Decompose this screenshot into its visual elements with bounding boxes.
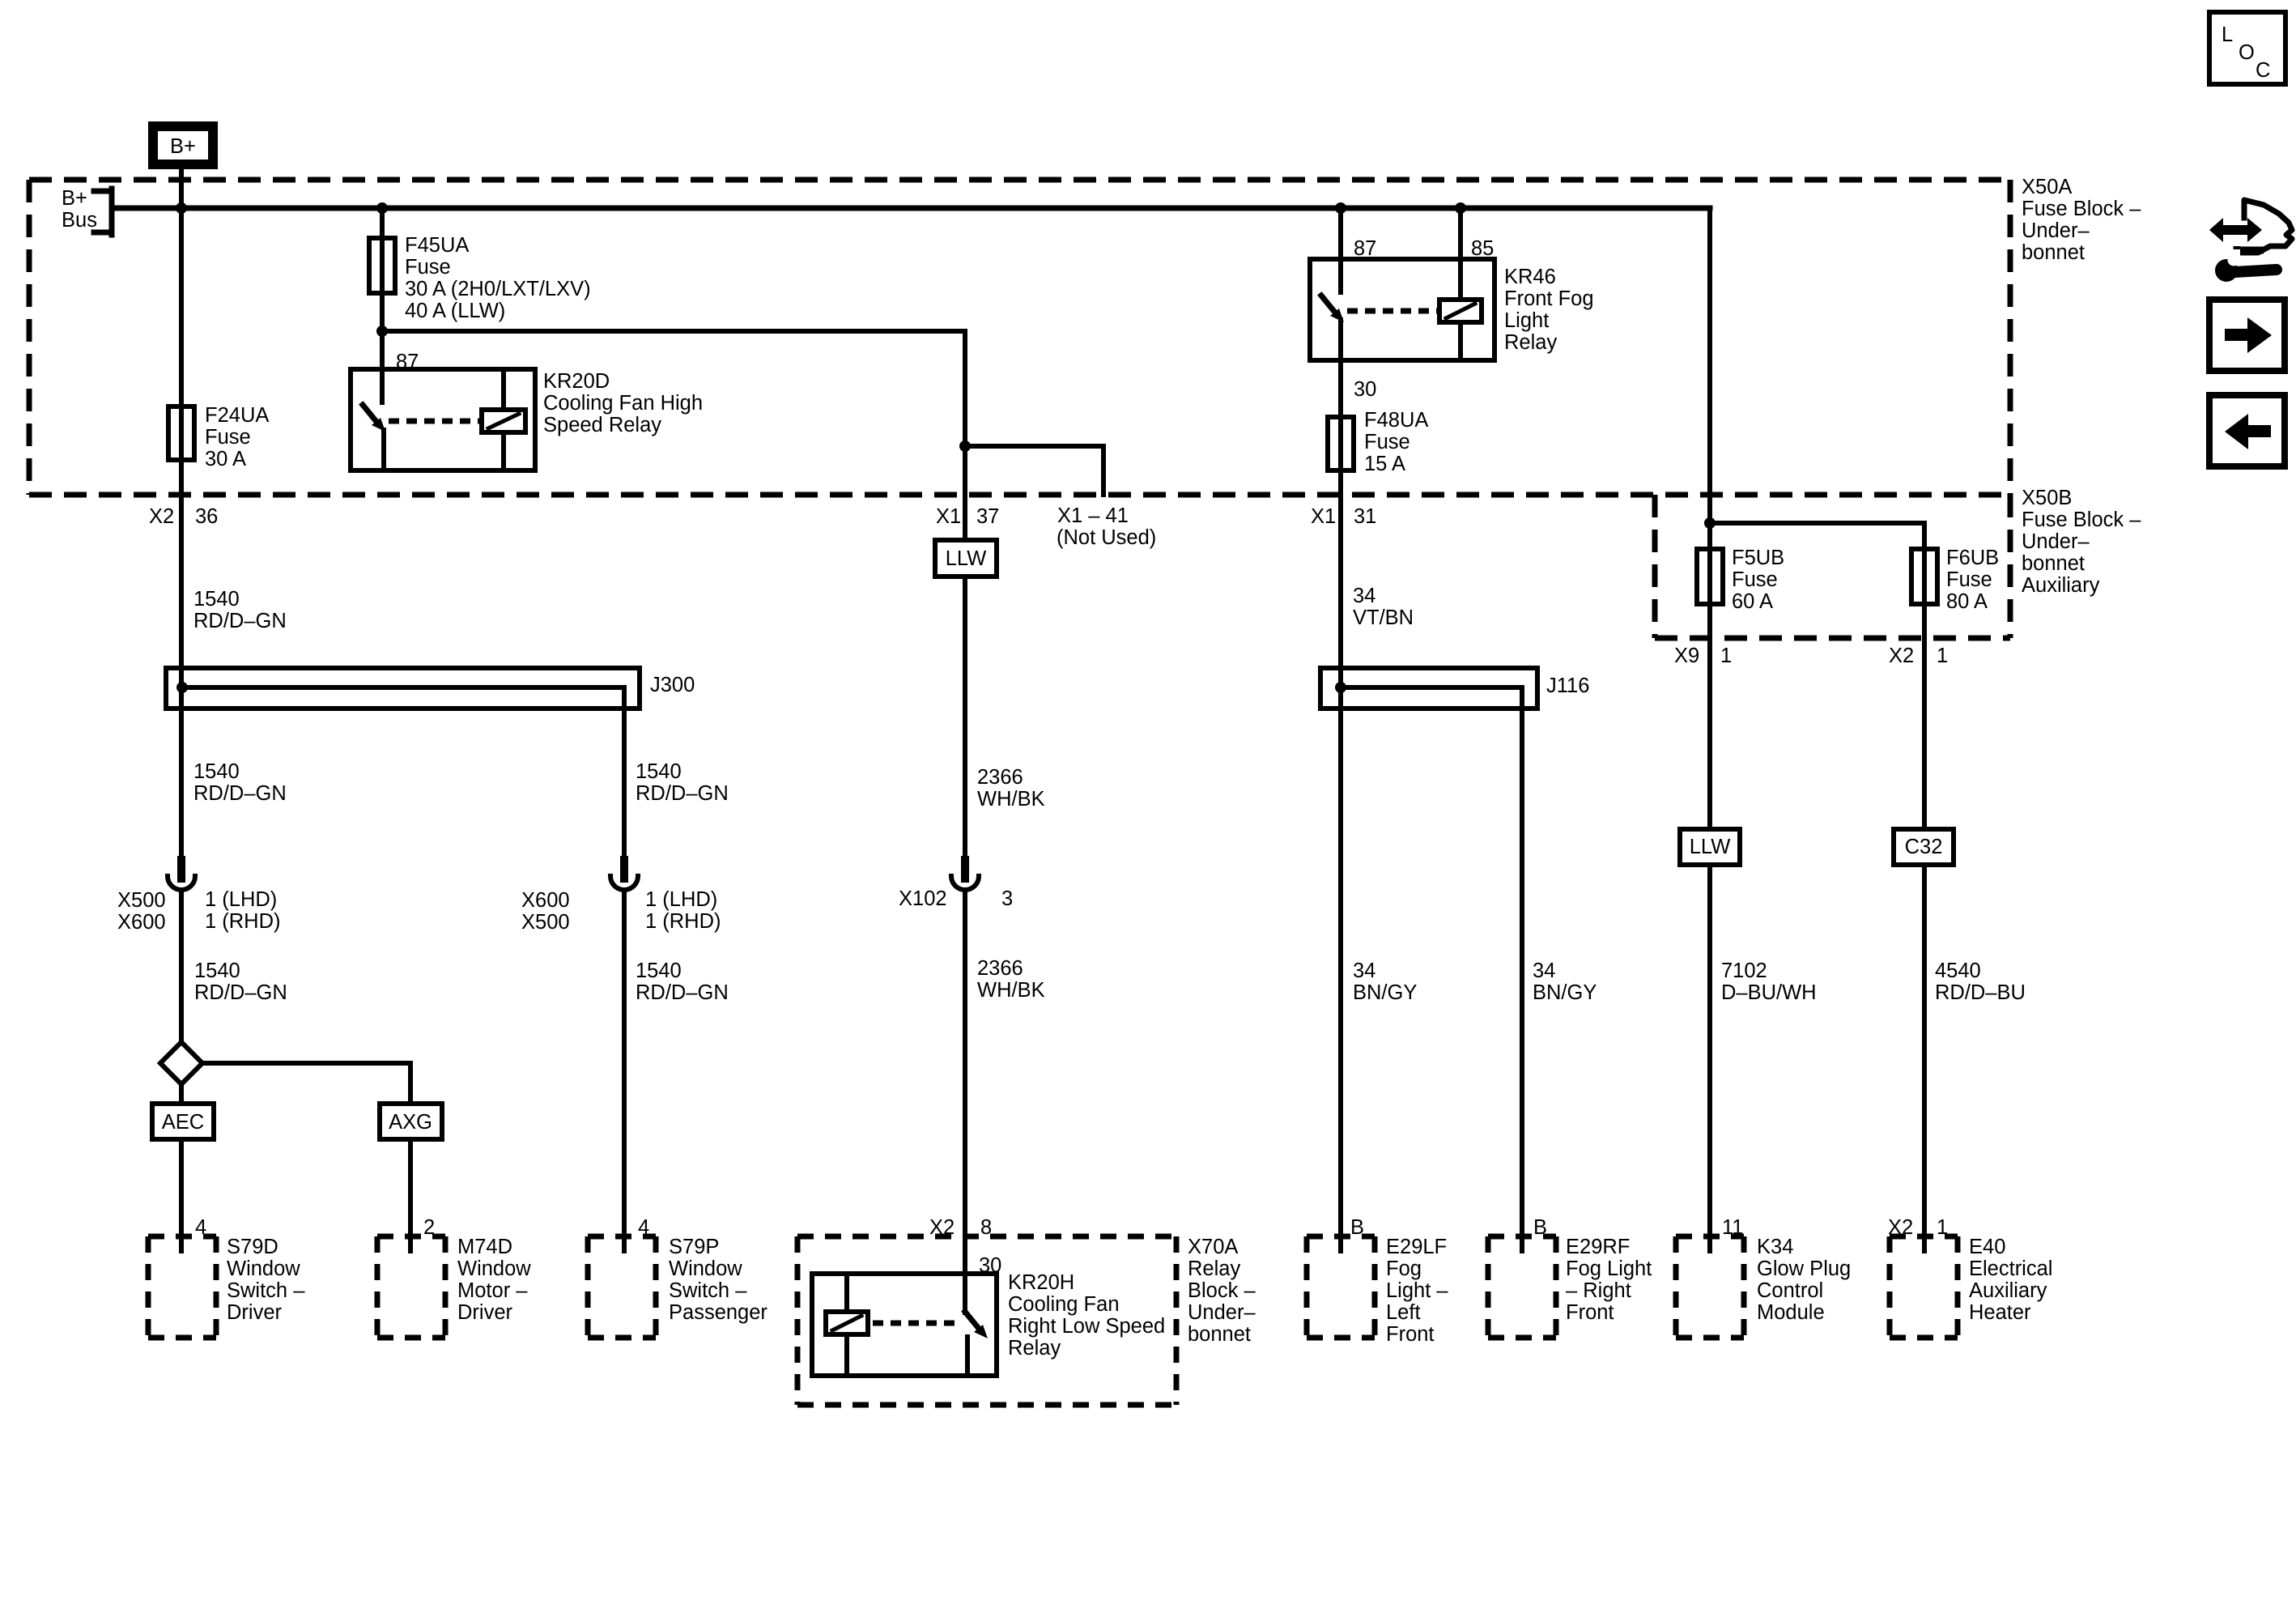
svg-text:bonnet: bonnet	[1188, 1323, 1251, 1346]
svg-text:J116: J116	[1546, 674, 1589, 697]
svg-text:X50A: X50A	[2022, 176, 2072, 198]
svg-text:Passenger: Passenger	[669, 1301, 767, 1324]
svg-text:X2: X2	[929, 1216, 955, 1239]
svg-text:Switch –: Switch –	[227, 1279, 305, 1302]
svg-text:AXG: AXG	[389, 1111, 432, 1134]
svg-text:2: 2	[423, 1216, 435, 1239]
svg-text:Window: Window	[669, 1257, 742, 1280]
svg-text:37: 37	[976, 505, 999, 528]
svg-text:30: 30	[979, 1254, 1001, 1277]
svg-text:F24UA: F24UA	[205, 404, 269, 427]
svg-text:1: 1	[1720, 645, 1732, 667]
svg-text:F48UA: F48UA	[1364, 409, 1428, 432]
svg-text:Speed Relay: Speed Relay	[543, 414, 661, 436]
svg-text:31: 31	[1354, 505, 1376, 528]
svg-text:1540: 1540	[193, 588, 240, 611]
svg-text:Fuse: Fuse	[1364, 431, 1410, 453]
svg-text:B+: B+	[170, 135, 196, 158]
svg-text:11: 11	[1722, 1216, 1743, 1239]
svg-text:X2: X2	[1889, 645, 1914, 667]
svg-text:X1: X1	[936, 505, 961, 528]
svg-text:15 A: 15 A	[1364, 453, 1405, 475]
svg-text:Left: Left	[1386, 1301, 1421, 1324]
svg-text:Under–: Under–	[2022, 219, 2090, 242]
svg-text:2366: 2366	[977, 766, 1023, 789]
svg-text:RD/D–BU: RD/D–BU	[1935, 981, 2026, 1004]
svg-text:60 A: 60 A	[1732, 590, 1773, 613]
svg-text:Fuse: Fuse	[205, 426, 251, 449]
svg-text:Under–: Under–	[1188, 1301, 1256, 1324]
svg-text:Fuse: Fuse	[1946, 568, 1992, 591]
svg-text:Relay: Relay	[1504, 331, 1557, 354]
svg-text:C32: C32	[1905, 836, 1943, 858]
svg-text:X1 – 41: X1 – 41	[1057, 504, 1129, 527]
svg-text:1540: 1540	[193, 760, 240, 783]
svg-text:1 (LHD): 1 (LHD)	[205, 888, 277, 911]
svg-text:Auxiliary: Auxiliary	[1969, 1279, 2047, 1302]
svg-text:Relay: Relay	[1188, 1257, 1240, 1280]
svg-text:Window: Window	[227, 1257, 300, 1280]
svg-text:X600: X600	[521, 889, 570, 912]
svg-text:X70A: X70A	[1188, 1236, 1238, 1258]
svg-text:M74D: M74D	[457, 1236, 512, 1258]
svg-text:Block –: Block –	[1188, 1279, 1256, 1302]
svg-text:Window: Window	[457, 1257, 531, 1280]
svg-text:X500: X500	[521, 911, 570, 934]
svg-text:Electrical: Electrical	[1969, 1257, 2052, 1280]
svg-text:(Not Used): (Not Used)	[1057, 526, 1156, 549]
svg-text:Relay: Relay	[1008, 1337, 1061, 1360]
svg-text:1540: 1540	[636, 760, 682, 783]
svg-text:34: 34	[1353, 960, 1375, 982]
svg-text:J300: J300	[650, 674, 695, 696]
svg-text:B: B	[1533, 1216, 1547, 1239]
svg-text:Driver: Driver	[227, 1301, 283, 1324]
svg-text:4540: 4540	[1935, 960, 1981, 982]
svg-text:B+: B+	[62, 187, 87, 210]
svg-text:7102: 7102	[1721, 960, 1767, 982]
svg-text:RD/D–GN: RD/D–GN	[193, 610, 287, 632]
svg-text:X2: X2	[1888, 1216, 1913, 1239]
svg-text:36: 36	[195, 505, 218, 528]
svg-text:Switch –: Switch –	[669, 1279, 747, 1302]
svg-text:Front: Front	[1386, 1323, 1435, 1346]
svg-text:Right Low Speed: Right Low Speed	[1008, 1315, 1165, 1338]
svg-text:4: 4	[638, 1216, 649, 1239]
svg-text:Light: Light	[1504, 309, 1549, 332]
svg-text:VT/BN: VT/BN	[1353, 606, 1414, 629]
svg-text:Under–: Under–	[2022, 530, 2090, 553]
svg-text:– Right: – Right	[1566, 1279, 1631, 1302]
svg-text:S79P: S79P	[669, 1236, 719, 1258]
svg-text:KR20D: KR20D	[543, 370, 610, 393]
svg-text:Front Fog: Front Fog	[1504, 287, 1594, 310]
svg-text:40 A (LLW): 40 A (LLW)	[405, 300, 505, 322]
svg-text:O: O	[2239, 41, 2255, 64]
svg-text:2366: 2366	[977, 957, 1023, 980]
svg-text:Cooling Fan High: Cooling Fan High	[543, 392, 703, 415]
svg-text:Bus: Bus	[62, 209, 97, 232]
svg-text:RD/D–GN: RD/D–GN	[194, 981, 287, 1004]
svg-text:Cooling Fan: Cooling Fan	[1008, 1293, 1120, 1316]
svg-text:LLW: LLW	[1690, 836, 1731, 858]
svg-text:Auxiliary: Auxiliary	[2022, 574, 2100, 597]
svg-text:Driver: Driver	[457, 1301, 513, 1324]
svg-text:X9: X9	[1674, 645, 1699, 667]
svg-text:1540: 1540	[194, 960, 240, 982]
svg-text:Module: Module	[1757, 1301, 1825, 1324]
svg-text:E40: E40	[1969, 1236, 2005, 1258]
svg-text:3: 3	[1001, 887, 1013, 910]
svg-text:X2: X2	[149, 505, 174, 528]
svg-text:KR20H: KR20H	[1008, 1271, 1074, 1294]
svg-text:1 (LHD): 1 (LHD)	[645, 888, 717, 911]
svg-text:E29RF: E29RF	[1566, 1236, 1630, 1258]
svg-text:30 A (2H0/LXT/LXV): 30 A (2H0/LXT/LXV)	[405, 278, 591, 300]
svg-text:BN/GY: BN/GY	[1353, 981, 1417, 1004]
svg-text:1 (RHD): 1 (RHD)	[645, 910, 721, 933]
svg-text:34: 34	[1533, 960, 1555, 982]
svg-text:LLW: LLW	[946, 547, 987, 570]
svg-text:8: 8	[980, 1216, 992, 1239]
svg-text:X600: X600	[117, 911, 166, 934]
svg-text:Fuse Block –: Fuse Block –	[2022, 198, 2141, 220]
svg-text:1540: 1540	[636, 960, 682, 982]
svg-text:Heater: Heater	[1969, 1301, 2031, 1324]
svg-text:Glow Plug: Glow Plug	[1757, 1257, 1851, 1280]
svg-text:Motor –: Motor –	[457, 1279, 528, 1302]
svg-text:bonnet: bonnet	[2022, 552, 2085, 575]
svg-text:87: 87	[1354, 237, 1376, 260]
svg-text:D–BU/WH: D–BU/WH	[1721, 981, 1817, 1004]
svg-text:bonnet: bonnet	[2022, 241, 2085, 264]
svg-text:X102: X102	[899, 887, 947, 910]
svg-text:Fuse Block –: Fuse Block –	[2022, 509, 2141, 531]
svg-text:Control: Control	[1757, 1279, 1823, 1302]
svg-text:F6UB: F6UB	[1946, 547, 1999, 569]
svg-text:30: 30	[1354, 378, 1376, 401]
svg-text:1 (RHD): 1 (RHD)	[205, 910, 281, 933]
svg-text:X500: X500	[117, 889, 166, 912]
svg-text:C: C	[2256, 59, 2270, 82]
svg-text:K34: K34	[1757, 1236, 1793, 1258]
svg-text:RD/D–GN: RD/D–GN	[193, 782, 287, 805]
svg-text:S79D: S79D	[227, 1236, 278, 1258]
svg-text:80 A: 80 A	[1946, 590, 1988, 613]
svg-text:F45UA: F45UA	[405, 234, 469, 257]
svg-text:1: 1	[1937, 645, 1948, 667]
svg-text:RD/D–GN: RD/D–GN	[636, 981, 729, 1004]
svg-text:Fuse: Fuse	[1732, 568, 1778, 591]
svg-text:X1: X1	[1311, 505, 1336, 528]
svg-text:Light –: Light –	[1386, 1279, 1448, 1302]
svg-text:Fog: Fog	[1386, 1257, 1422, 1280]
svg-text:BN/GY: BN/GY	[1533, 981, 1597, 1004]
svg-text:30 A: 30 A	[205, 448, 246, 470]
svg-text:34: 34	[1353, 585, 1375, 607]
svg-text:B: B	[1350, 1216, 1364, 1239]
svg-text:F5UB: F5UB	[1732, 547, 1784, 569]
svg-text:87: 87	[396, 351, 419, 373]
svg-text:L: L	[2222, 23, 2233, 46]
svg-text:85: 85	[1471, 237, 1494, 260]
svg-text:WH/BK: WH/BK	[977, 979, 1045, 1002]
svg-text:AEC: AEC	[162, 1111, 204, 1134]
svg-text:KR46: KR46	[1504, 266, 1556, 288]
svg-text:4: 4	[195, 1216, 206, 1239]
svg-text:RD/D–GN: RD/D–GN	[636, 782, 729, 805]
svg-text:Fog Light: Fog Light	[1566, 1257, 1652, 1280]
svg-text:WH/BK: WH/BK	[977, 788, 1045, 811]
svg-text:1: 1	[1937, 1216, 1948, 1239]
svg-text:X50B: X50B	[2022, 487, 2072, 509]
svg-text:Front: Front	[1566, 1301, 1614, 1324]
svg-text:Fuse: Fuse	[405, 256, 451, 279]
svg-text:E29LF: E29LF	[1386, 1236, 1447, 1258]
